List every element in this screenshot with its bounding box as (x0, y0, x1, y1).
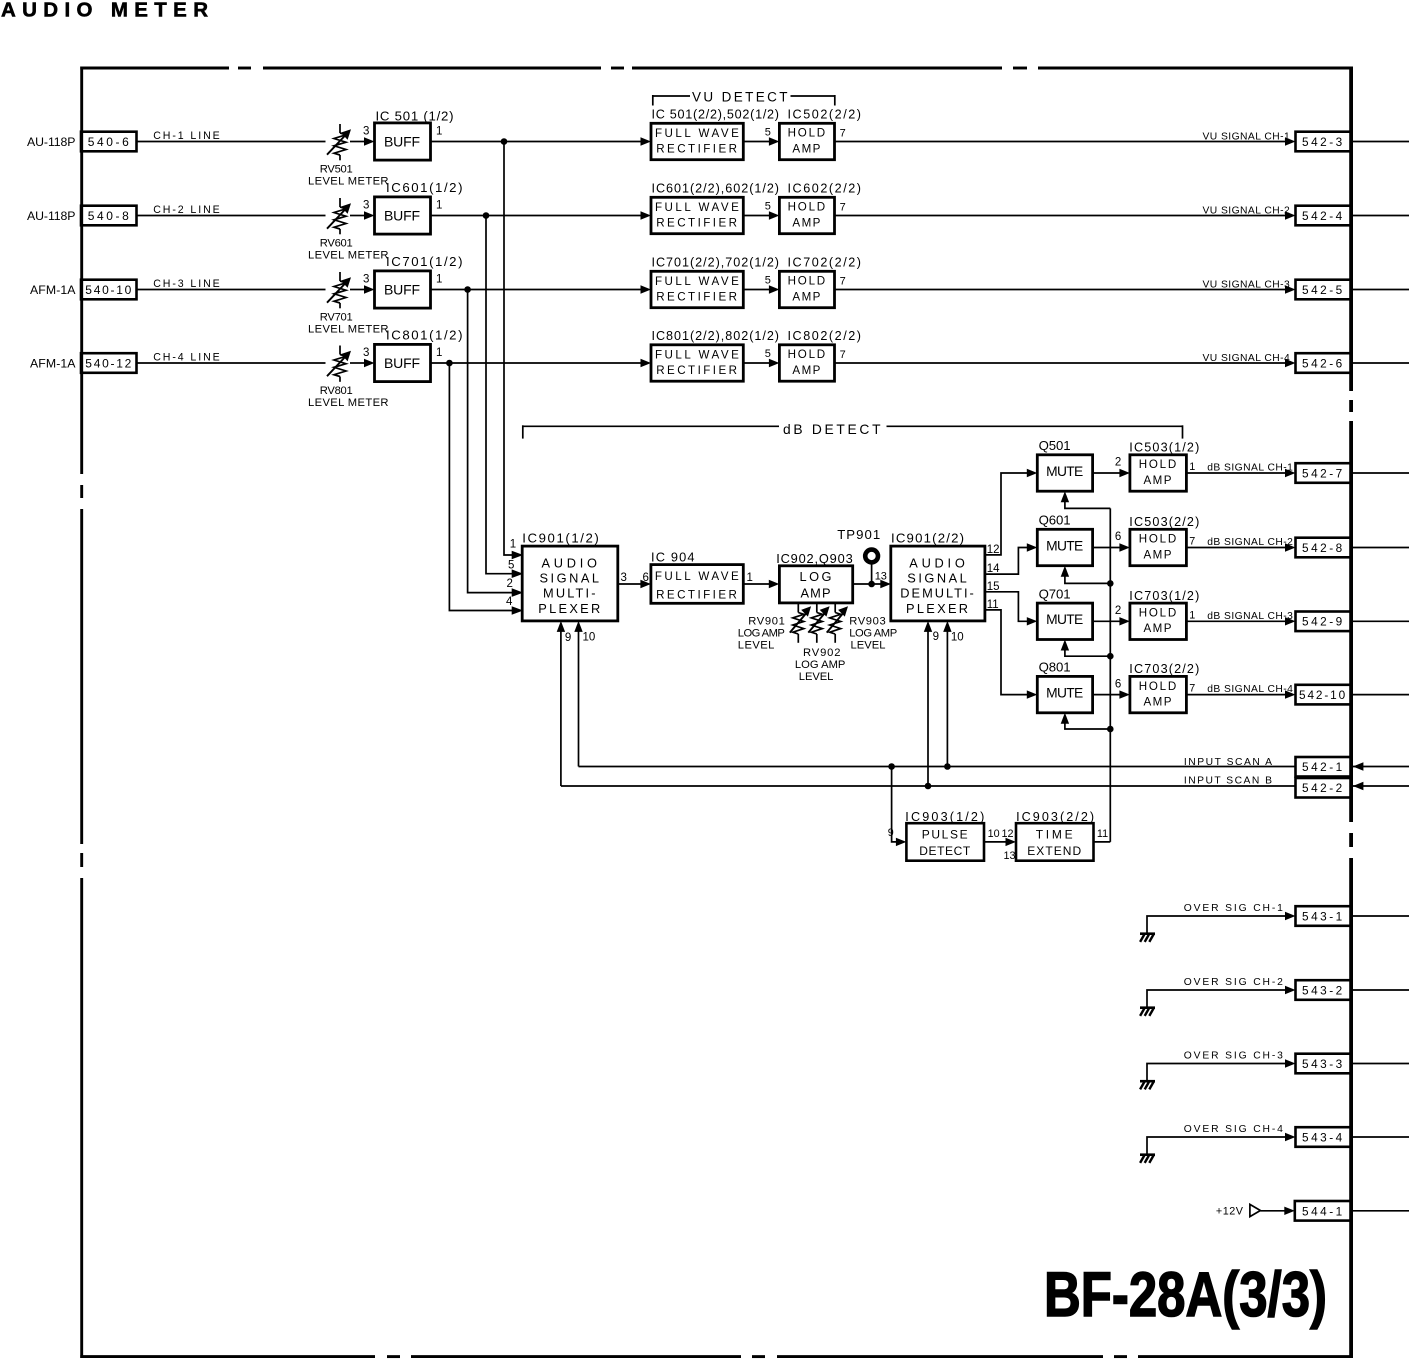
connector 542-4 VU SIGNAL CH-2 (1296, 206, 1352, 226)
svg-text:PLEXER: PLEXER (906, 601, 970, 616)
hold amp IC602(2/2) HOLD AMP (779, 182, 861, 234)
wire stub right of 543-4 (1353, 1136, 1409, 1138)
svg-text:9: 9 (888, 827, 894, 839)
potentiometer RV902 LOG AMP LEVEL (808, 603, 829, 643)
wire scan A to pulse detect pin 9 (888, 767, 907, 847)
arrow into full wave rectifier CH-4 (641, 359, 652, 367)
pin 7 wire hold amp to connector 542-10 (1186, 683, 1295, 699)
svg-text:BUFF: BUFF (384, 282, 421, 298)
svg-text:RECTIFIER: RECTIFIER (656, 143, 738, 156)
svg-text:AUDIO METER: AUDIO METER (1, 0, 212, 22)
wire RV to BUFF pin 3 (350, 347, 375, 367)
svg-text:VU DETECT: VU DETECT (692, 89, 789, 104)
svg-text:AU-118P: AU-118P (27, 209, 76, 223)
wire column CH-1 to multiplexer pin (504, 142, 513, 556)
svg-text:TP901: TP901 (837, 527, 881, 542)
svg-text:RV601: RV601 (320, 237, 354, 249)
pin 7 wire hold amp to connector 542-8 (1186, 536, 1295, 552)
connector 542-7 dB SIGNAL CH-1 (1296, 463, 1352, 483)
connector 542-9 dB SIGNAL CH-3 (1296, 612, 1352, 632)
transistor mute Q701 MUTE (1037, 586, 1092, 639)
potentiometer RV801 LEVEL METER (308, 346, 389, 410)
svg-text:IC902,Q903: IC902,Q903 (776, 551, 853, 566)
label RV902 LOG AMP LEVEL (795, 647, 846, 683)
pin 7 wire hold amp to connector 542-3 (835, 127, 1296, 145)
wire column CH-4 to multiplexer pin (449, 363, 512, 611)
time extender IC903(2/2) TIME EXTEND (1016, 810, 1094, 861)
svg-text:BUFF: BUFF (384, 355, 421, 371)
pin 11 wire demultiplexer to MUTE (985, 599, 1037, 699)
wire BUFF output to full wave rectifier (431, 141, 642, 143)
svg-text:AMP: AMP (792, 364, 821, 377)
svg-text:IC903(2/2): IC903(2/2) (1016, 810, 1094, 824)
svg-text:AMP: AMP (1144, 695, 1173, 708)
pin 7 wire hold amp to connector 542-6 (835, 349, 1296, 367)
pin 12 wire demultiplexer to MUTE (985, 469, 1037, 556)
wire CH-1 line from 540-6 to RV501 (137, 130, 326, 142)
pin 10 wire demultiplexer to input scan A (943, 621, 963, 767)
svg-text:LEVEL METER: LEVEL METER (308, 324, 389, 336)
frame border left (80, 67, 83, 1359)
wire mute control into Q701 bottom (1061, 640, 1111, 657)
svg-text:MUTE: MUTE (1046, 464, 1084, 479)
svg-text:IC703(1/2): IC703(1/2) (1129, 589, 1199, 603)
demultiplexer IC901(2/2) AUDIO SIGNAL DEMULTIPLEXER (891, 530, 985, 621)
svg-text:RV501: RV501 (320, 163, 354, 175)
svg-text:OVER SIG CH-1: OVER SIG CH-1 (1184, 903, 1284, 914)
svg-text:dB DETECT: dB DETECT (783, 422, 882, 437)
rectifier IC 501(2/2),502(1/2) FULL WAVE RECTIFIER (651, 108, 779, 160)
transistor mute Q501 MUTE (1037, 438, 1092, 491)
hold amp IC703(1/2) HOLD AMP (1129, 589, 1199, 640)
svg-text:6: 6 (1115, 531, 1121, 543)
svg-text:BF-28A(3/3): BF-28A(3/3) (1044, 1260, 1327, 1330)
svg-text:10: 10 (583, 632, 596, 644)
svg-text:VU SIGNAL CH-1: VU SIGNAL CH-1 (1203, 131, 1291, 142)
svg-text:IC601(2/2),602(1/2): IC601(2/2),602(1/2) (652, 182, 780, 196)
node junction CH-4 to multiplexer column (446, 360, 453, 367)
node junction mute control Q601 (1107, 580, 1114, 587)
svg-text:542-6: 542-6 (1302, 356, 1343, 370)
svg-text:543-3: 543-3 (1302, 1057, 1343, 1071)
svg-text:HOLD: HOLD (788, 201, 827, 214)
connector 542-3 VU SIGNAL CH-1 (1296, 132, 1352, 152)
pin 1 wire hold amp to connector 542-7 (1186, 461, 1295, 477)
svg-text:544-1: 544-1 (1302, 1204, 1343, 1218)
pin 5 wire rectifier to hold amp (743, 201, 779, 220)
transistor mute Q601 MUTE (1037, 513, 1092, 566)
svg-text:IC502(2/2): IC502(2/2) (788, 108, 862, 122)
svg-text:542-3: 542-3 (1302, 135, 1343, 149)
svg-text:543-1: 543-1 (1302, 909, 1343, 923)
svg-text:INPUT SCAN B: INPUT SCAN B (1184, 776, 1273, 787)
connector 540-6 (board AU-118P) (27, 132, 137, 152)
hold amp IC503(1/2) HOLD AMP (1129, 441, 1199, 492)
svg-text:TIME: TIME (1036, 828, 1074, 842)
svg-text:6: 6 (1115, 678, 1121, 690)
pin 5 wire rectifier to hold amp (743, 127, 779, 146)
wire OVER SIG CH-3 to connector 543-3 (1147, 1051, 1296, 1082)
svg-text:542-9: 542-9 (1302, 615, 1343, 629)
svg-text:CH-3 LINE: CH-3 LINE (153, 278, 221, 290)
svg-text:AMP: AMP (792, 142, 821, 155)
svg-text:HOLD: HOLD (788, 127, 827, 140)
label bracket VU DETECT (653, 89, 835, 105)
pin 15 wire demultiplexer to MUTE (985, 581, 1037, 626)
connector 540-8 (board AU-118P) (27, 206, 137, 226)
connector 544-1 +12V (1295, 1201, 1351, 1221)
svg-text:RECTIFIER: RECTIFIER (656, 217, 738, 230)
ground chassis for OVER SIG CH-1 (1140, 934, 1155, 942)
svg-text:7: 7 (1189, 683, 1195, 695)
wire stub right of 542-9 (1353, 620, 1409, 622)
node junction scan B to demultiplexer pin 9 (925, 783, 932, 790)
wire OVER SIG CH-1 to connector 543-1 (1147, 903, 1296, 934)
hold amp IC503(2/2) HOLD AMP (1129, 515, 1199, 566)
svg-text:AU-118P: AU-118P (27, 135, 76, 149)
arrow into full wave rectifier CH-1 (641, 137, 652, 145)
hold amp IC802(2/2) HOLD AMP (779, 329, 861, 381)
svg-text:LEVEL: LEVEL (738, 639, 775, 651)
pin 2 wire MUTE to hold amp (1093, 457, 1130, 478)
pin 11 wire time extend to mute control bus (1094, 828, 1111, 842)
svg-text:5: 5 (508, 560, 514, 572)
svg-text:IC901(1/2): IC901(1/2) (522, 530, 599, 545)
svg-text:AMP: AMP (1144, 474, 1173, 487)
frame border bottom (80, 1355, 1353, 1358)
svg-text:PLEXER: PLEXER (538, 601, 602, 616)
svg-text:IC701(2/2),702(1/2): IC701(2/2),702(1/2) (652, 256, 780, 270)
svg-text:VU SIGNAL CH-2: VU SIGNAL CH-2 (1203, 205, 1291, 216)
connector 542-6 VU SIGNAL CH-4 (1296, 353, 1352, 373)
svg-text:HOLD: HOLD (788, 275, 827, 288)
hold amp IC502(2/2) HOLD AMP (779, 108, 861, 160)
wire stub right of 542-5 (1353, 289, 1409, 291)
ground chassis for OVER SIG CH-3 (1140, 1081, 1155, 1089)
connector 542-5 VU SIGNAL CH-3 (1296, 280, 1352, 300)
svg-text:RV902: RV902 (803, 647, 841, 659)
wire CH-2 line from 540-8 to RV601 (137, 204, 326, 216)
node junction mute control Q701 (1107, 653, 1114, 660)
svg-text:dB SIGNAL CH-3: dB SIGNAL CH-3 (1207, 611, 1293, 622)
pin 7 wire hold amp to connector 542-5 (835, 275, 1296, 293)
svg-text:DEMULTI-: DEMULTI- (900, 586, 975, 601)
svg-text:542-10: 542-10 (1299, 688, 1346, 702)
svg-text:HOLD: HOLD (788, 348, 827, 361)
node junction mute control Q801 (1107, 726, 1114, 733)
svg-text:VU SIGNAL CH-4: VU SIGNAL CH-4 (1203, 353, 1291, 364)
svg-text:3: 3 (621, 572, 627, 584)
pin 10 wire multiplexer to input scan A (574, 621, 595, 767)
svg-text:IC602(2/2): IC602(2/2) (788, 182, 862, 196)
svg-text:540-6: 540-6 (88, 135, 130, 149)
svg-text:VU SIGNAL CH-3: VU SIGNAL CH-3 (1203, 279, 1291, 290)
svg-text:HOLD: HOLD (1139, 533, 1178, 546)
svg-text:542-8: 542-8 (1302, 541, 1343, 555)
svg-text:HOLD: HOLD (1139, 458, 1178, 471)
wire BUFF output to full wave rectifier (431, 289, 642, 291)
ground chassis for OVER SIG CH-4 (1140, 1155, 1155, 1163)
svg-text:IC903(1/2): IC903(1/2) (905, 810, 984, 824)
svg-text:AMP: AMP (792, 216, 821, 229)
wire mute control into Q501 bottom (1061, 491, 1111, 508)
svg-text:RV801: RV801 (320, 385, 354, 397)
svg-text:RECTIFIER: RECTIFIER (656, 589, 738, 602)
svg-text:IC601(1/2): IC601(1/2) (386, 180, 463, 195)
svg-text:Q801: Q801 (1039, 660, 1071, 675)
wire stub with arrow into 542-2 (1353, 782, 1409, 790)
svg-text:9: 9 (933, 631, 939, 643)
wire stub right of 542-10 (1353, 694, 1409, 696)
svg-text:OVER SIG CH-2: OVER SIG CH-2 (1184, 977, 1284, 988)
frame border right bus (1349, 67, 1353, 1359)
svg-text:Q701: Q701 (1039, 586, 1071, 601)
svg-text:RECTIFIER: RECTIFIER (656, 364, 738, 377)
wire column CH-3 to multiplexer pin (468, 290, 513, 593)
wire mute control into Q801 bottom (1061, 713, 1111, 729)
connector 543-1 OVER SIG CH-1 (1296, 906, 1352, 926)
svg-text:RV701: RV701 (320, 311, 354, 323)
svg-text:10: 10 (951, 631, 964, 643)
connector 540-10 (board AFM-1A) (30, 280, 137, 300)
svg-text:543-4: 543-4 (1302, 1130, 1343, 1144)
svg-text:OVER SIG CH-3: OVER SIG CH-3 (1184, 1051, 1284, 1062)
wire stub right of 542-4 (1353, 215, 1409, 217)
svg-text:3: 3 (363, 126, 369, 138)
ground chassis for OVER SIG CH-2 (1140, 1008, 1155, 1016)
svg-text:1: 1 (747, 572, 753, 584)
pin 10 12 wire pulse detect to time extend (984, 828, 1016, 862)
arrow into full wave rectifier CH-3 (641, 285, 652, 293)
svg-text:11: 11 (1097, 828, 1108, 840)
rectifier IC904 FULL WAVE RECTIFIER (651, 549, 743, 603)
svg-text:IC901(2/2): IC901(2/2) (891, 530, 964, 545)
wire stub right of 544-1 (1353, 1210, 1409, 1212)
svg-text:+12V: +12V (1216, 1205, 1244, 1217)
svg-text:542-5: 542-5 (1302, 283, 1343, 297)
frame border top (80, 67, 1353, 70)
rectifier IC801(2/2),802(1/2) FULL WAVE RECTIFIER (651, 329, 779, 381)
svg-text:1: 1 (436, 200, 442, 212)
node junction CH-3 to multiplexer column (464, 286, 471, 293)
pin 1 wire IC904 to log amp (743, 572, 779, 588)
svg-text:LOG AMP: LOG AMP (795, 659, 846, 671)
svg-text:LEVEL METER: LEVEL METER (308, 176, 389, 188)
svg-text:MUTE: MUTE (1046, 538, 1084, 553)
svg-text:LOG AMP: LOG AMP (849, 628, 897, 640)
svg-text:1: 1 (436, 126, 442, 138)
multiplexer pin 3 wire to IC904 (618, 572, 651, 588)
svg-text:7: 7 (840, 127, 846, 139)
rectifier IC601(2/2),602(1/2) FULL WAVE RECTIFIER (651, 182, 779, 234)
svg-text:dB SIGNAL CH-2: dB SIGNAL CH-2 (1207, 537, 1293, 548)
svg-text:5: 5 (765, 127, 771, 139)
svg-text:LEVEL METER: LEVEL METER (308, 397, 389, 409)
svg-text:dB SIGNAL CH-1: dB SIGNAL CH-1 (1207, 463, 1293, 474)
svg-text:IC 904: IC 904 (651, 549, 695, 564)
wire RV to BUFF pin 3 (350, 274, 375, 294)
connector 543-4 OVER SIG CH-4 (1296, 1127, 1352, 1147)
svg-text:MULTI-: MULTI- (543, 586, 597, 601)
connector 542-8 dB SIGNAL CH-2 (1296, 538, 1352, 558)
svg-text:IC503(1/2): IC503(1/2) (1129, 441, 1199, 455)
test point TP901 (837, 527, 881, 584)
svg-text:LEVEL: LEVEL (799, 671, 834, 683)
wire stub with arrow into 542-1 (1353, 762, 1409, 770)
wire OVER SIG CH-4 to connector 543-4 (1147, 1124, 1296, 1155)
op-amp buffer IC 501 (1/2) BUFF (375, 109, 454, 160)
wire log amp pin 13 to demultiplexer (853, 571, 891, 589)
svg-text:IC802(2/2): IC802(2/2) (788, 329, 862, 343)
multiplexer IC901(1/2) AUDIO SIGNAL MULTIPLEXER (522, 530, 618, 621)
svg-text:MUTE: MUTE (1046, 612, 1084, 627)
svg-text:SIGNAL: SIGNAL (907, 571, 968, 586)
svg-text:7: 7 (1189, 536, 1195, 548)
hold amp IC703(2/2) HOLD AMP (1129, 662, 1199, 713)
svg-text:2: 2 (1115, 605, 1121, 617)
svg-text:AMP: AMP (1144, 622, 1173, 635)
svg-text:IC503(2/2): IC503(2/2) (1129, 515, 1199, 529)
node junction scan A to pulse detect (888, 763, 895, 770)
svg-text:13: 13 (875, 571, 887, 583)
wire RV to BUFF pin 3 (350, 200, 375, 220)
svg-text:AMP: AMP (792, 290, 821, 303)
svg-text:5: 5 (765, 348, 771, 360)
connector 543-3 OVER SIG CH-3 (1296, 1054, 1352, 1074)
svg-text:AFM-1A: AFM-1A (30, 356, 76, 370)
svg-text:3: 3 (363, 347, 369, 359)
log amp IC902,Q903 LOG AMP (776, 551, 853, 603)
svg-text:AFM-1A: AFM-1A (30, 283, 76, 297)
svg-text:PULSE: PULSE (922, 828, 969, 842)
svg-text:INPUT SCAN A: INPUT SCAN A (1184, 757, 1273, 768)
node junction CH-1 to multiplexer column (501, 138, 508, 145)
pin 7 wire hold amp to connector 542-4 (835, 201, 1296, 219)
wire column CH-2 to multiplexer pin (486, 216, 513, 574)
op-amp buffer IC801(1/2) BUFF (375, 328, 463, 382)
svg-text:IC 501(2/2),502(1/2): IC 501(2/2),502(1/2) (652, 108, 780, 122)
arrow into full wave rectifier CH-2 (641, 211, 652, 219)
svg-text:IC801(1/2): IC801(1/2) (386, 328, 463, 343)
svg-text:IC801(2/2),802(1/2): IC801(2/2),802(1/2) (652, 329, 780, 343)
pin 2 wire MUTE to hold amp (1093, 605, 1130, 626)
svg-text:AMP: AMP (1144, 548, 1173, 561)
svg-text:IC701(1/2): IC701(1/2) (386, 254, 463, 269)
svg-text:IC 501 (1/2): IC 501 (1/2) (376, 109, 454, 124)
svg-text:540-12: 540-12 (85, 357, 132, 371)
pin 9 wire multiplexer to input scan B (557, 621, 572, 786)
svg-text:6: 6 (643, 572, 649, 584)
wire stub right of 543-1 (1353, 915, 1409, 917)
svg-text:LOG AMP: LOG AMP (738, 628, 785, 640)
connector 542-2 INPUT SCAN B (1296, 778, 1352, 798)
svg-text:AMP: AMP (801, 585, 832, 600)
svg-text:542-1: 542-1 (1302, 760, 1343, 774)
svg-text:7: 7 (840, 201, 846, 213)
svg-text:542-7: 542-7 (1302, 466, 1343, 480)
svg-text:LEVEL METER: LEVEL METER (308, 250, 389, 262)
pulse detector IC903(1/2) PULSE DETECT (905, 810, 984, 861)
svg-text:OVER SIG CH-4: OVER SIG CH-4 (1184, 1124, 1284, 1135)
wire mute control bus vertical (1109, 508, 1111, 842)
svg-text:EXTEND: EXTEND (1027, 844, 1082, 858)
label RV903 LOG AMP LEVEL (849, 615, 897, 651)
potentiometer RV701 LEVEL METER (308, 272, 389, 336)
potentiometer RV501 LEVEL METER (308, 124, 389, 188)
svg-text:1: 1 (510, 539, 516, 551)
svg-text:CH-2 LINE: CH-2 LINE (153, 204, 221, 216)
pin 5 wire rectifier to hold amp (743, 275, 779, 294)
wire stub right of 543-2 (1353, 989, 1409, 991)
wire CH-4 line from 540-12 to RV801 (137, 351, 326, 363)
op-amp buffer IC601(1/2) BUFF (375, 180, 463, 234)
svg-text:4: 4 (506, 596, 513, 608)
svg-text:AUDIO: AUDIO (542, 556, 599, 571)
svg-text:1: 1 (1189, 609, 1195, 621)
label bracket dB DETECT (523, 422, 1183, 439)
pin 6 wire MUTE to hold amp (1093, 531, 1130, 552)
svg-text:5: 5 (765, 201, 771, 213)
connector 542-10 dB SIGNAL CH-4 (1296, 685, 1352, 705)
pin 1 wire hold amp to connector 542-9 (1186, 609, 1295, 625)
transistor mute Q801 MUTE (1037, 660, 1092, 713)
wire CH-3 line from 540-10 to RV701 (137, 278, 326, 290)
wire stub right of 542-3 (1353, 141, 1409, 143)
svg-text:HOLD: HOLD (1139, 607, 1178, 620)
pin 5 wire rectifier to hold amp (743, 348, 779, 367)
svg-text:IC703(2/2): IC703(2/2) (1129, 662, 1199, 676)
svg-text:dB SIGNAL CH-4: dB SIGNAL CH-4 (1207, 684, 1293, 695)
svg-text:543-2: 543-2 (1302, 983, 1343, 997)
pin 9 wire demultiplexer to input scan B (924, 621, 939, 786)
svg-text:1: 1 (436, 347, 442, 359)
wire stub right of 543-3 (1353, 1063, 1409, 1065)
svg-text:LOG: LOG (800, 569, 833, 584)
wire INPUT SCAN A (579, 757, 1297, 768)
svg-text:Q501: Q501 (1039, 438, 1071, 453)
node TP junction (868, 581, 875, 588)
pin 6 wire MUTE to hold amp (1093, 678, 1130, 699)
svg-text:10: 10 (988, 828, 1000, 840)
svg-text:9: 9 (565, 632, 571, 644)
svg-text:CH-4 LINE: CH-4 LINE (153, 351, 221, 363)
svg-text:Q601: Q601 (1039, 513, 1071, 528)
svg-text:2: 2 (507, 578, 513, 590)
svg-text:540-8: 540-8 (88, 209, 130, 223)
hold amp IC702(2/2) HOLD AMP (779, 256, 861, 308)
wire stub right of 542-6 (1353, 362, 1409, 364)
svg-text:3: 3 (363, 274, 369, 286)
connector 542-1 INPUT SCAN A (1296, 757, 1352, 777)
wire BUFF output to full wave rectifier (431, 215, 642, 217)
svg-text:540-10: 540-10 (85, 283, 132, 297)
svg-text:IC702(2/2): IC702(2/2) (788, 256, 862, 270)
svg-text:LEVEL: LEVEL (851, 639, 886, 651)
svg-text:RECTIFIER: RECTIFIER (656, 291, 738, 304)
svg-text:7: 7 (840, 349, 846, 361)
wire stub right of 542-7 (1353, 472, 1409, 474)
svg-text:12: 12 (1002, 828, 1014, 840)
svg-text:542-4: 542-4 (1302, 209, 1343, 223)
svg-text:1: 1 (436, 274, 442, 286)
svg-text:BUFF: BUFF (384, 208, 421, 224)
wire +12V to connector 544-1 (1260, 1207, 1294, 1215)
svg-text:HOLD: HOLD (1139, 680, 1178, 693)
svg-text:CH-1 LINE: CH-1 LINE (153, 130, 221, 142)
wire BUFF output to full wave rectifier (431, 362, 642, 364)
pin 14 wire demultiplexer to MUTE (985, 543, 1037, 575)
potentiometer RV601 LEVEL METER (308, 198, 389, 262)
